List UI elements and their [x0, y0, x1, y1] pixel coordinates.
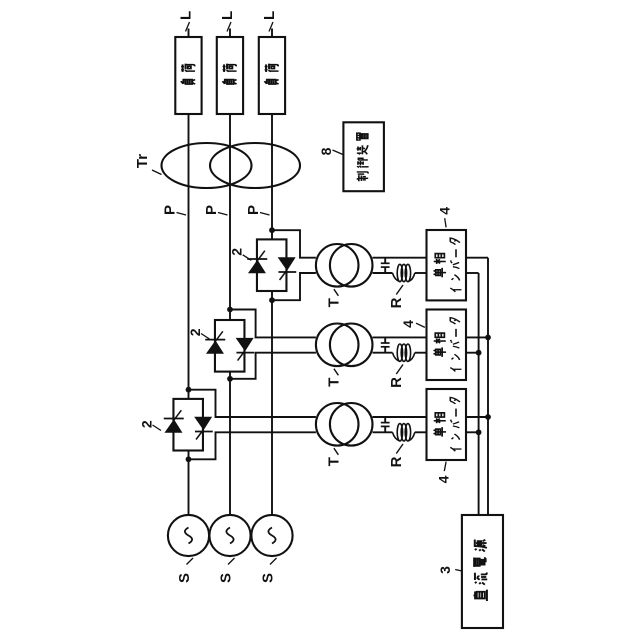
wire inductor to inverter (phase 2) — [415, 352, 427, 354]
svg-text:P: P — [203, 205, 220, 215]
transformer Tr winding 2 — [210, 143, 300, 188]
svg-text:4: 4 — [436, 475, 452, 483]
thyristor (upper, phase 3) — [248, 260, 266, 273]
inverter text line2 (phase 2) — [450, 368, 461, 372]
svg-text:T: T — [326, 298, 343, 307]
wire inverter 1 to bus B — [466, 431, 479, 433]
svg-text:2: 2 — [139, 420, 155, 428]
label L (phase 3) — [269, 22, 273, 32]
wire T2 secondary right — [373, 336, 427, 338]
svg-text:S: S — [260, 573, 277, 583]
capacitor (phase 2) — [384, 337, 386, 343]
svg-text:L: L — [261, 11, 278, 20]
thyristor pair box 2 (phase 1) — [173, 399, 203, 451]
wire inductor to inverter (phase 3) — [415, 272, 427, 274]
svg-text:3: 3 — [437, 566, 453, 574]
dc bus A (lower) — [487, 258, 489, 515]
wire phase 1 switch to load — [188, 390, 190, 399]
inverter text line1 (phase 1) — [434, 427, 446, 436]
svg-text:4: 4 — [400, 320, 416, 328]
load text (phase 3) — [264, 79, 278, 84]
load box (phase 2) — [217, 37, 243, 114]
transformer T3 secondary — [330, 244, 373, 287]
dc source text — [473, 590, 486, 601]
load text (phase 2) — [222, 79, 236, 84]
inverter text line1 (phase 3) — [434, 268, 446, 277]
svg-text:4: 4 — [436, 207, 452, 215]
transformer T3 primary — [316, 244, 359, 287]
svg-text:T: T — [326, 378, 343, 387]
svg-text:L: L — [178, 11, 195, 20]
wire load 3 to terminal — [271, 29, 273, 38]
inductor R (phase 1) — [393, 432, 400, 441]
svg-text:Tr: Tr — [134, 154, 151, 168]
dc source box 3 — [462, 515, 503, 628]
ac source S3 — [251, 515, 292, 556]
wire load 2 to terminal — [229, 29, 231, 38]
wire phase 3 into switch — [271, 291, 273, 300]
dc bus B (upper) — [478, 273, 480, 515]
wire to T1 primary (left) — [189, 432, 316, 459]
wire to T2 primary (right) — [230, 310, 316, 338]
transformer T2 secondary — [330, 323, 373, 366]
thyristor pair box 2 (phase 3) — [257, 239, 287, 291]
transformer T1 secondary — [330, 403, 373, 446]
ac source S1 — [168, 515, 209, 556]
wire T2 secondary left upper — [373, 352, 393, 354]
wire T3 secondary left upper — [373, 272, 393, 274]
wire T1 secondary left upper — [373, 431, 393, 433]
thyristor (lower, phase 2) — [236, 338, 254, 352]
label L (phase 2) — [227, 22, 231, 32]
svg-text:S: S — [176, 573, 193, 583]
node phase 2 right — [227, 307, 233, 313]
wire T1 secondary right — [373, 416, 427, 418]
wire T3 secondary right — [373, 257, 427, 259]
thyristor (upper, phase 1) — [164, 419, 182, 432]
svg-text:R: R — [388, 377, 405, 388]
inverter text line2 (phase 3) — [450, 288, 461, 292]
svg-text:8: 8 — [318, 147, 334, 155]
inverter text line2 (phase 1) — [450, 447, 461, 451]
single-phase inverter box 4 (phase 3) — [427, 230, 467, 300]
svg-text:T: T — [326, 457, 343, 466]
transformer Tr winding 1 — [162, 143, 252, 188]
svg-text:L: L — [219, 11, 236, 20]
single-phase inverter box 4 (phase 2) — [427, 310, 467, 381]
wire load 1 to terminal — [188, 29, 190, 38]
svg-text:P: P — [162, 205, 179, 215]
svg-text:P: P — [245, 205, 262, 215]
node phase 3 left — [269, 297, 275, 303]
inverter text line1 (phase 2) — [434, 347, 446, 356]
svg-text:R: R — [388, 456, 405, 467]
wire inductor to inverter (phase 1) — [415, 431, 427, 433]
wire phase 2 switch to load — [229, 310, 231, 321]
wire phase 2 into switch — [229, 372, 231, 379]
svg-text:2: 2 — [229, 248, 245, 256]
wire inverter 2 to bus A — [466, 336, 488, 338]
node phase 2 left — [227, 376, 233, 382]
node bus A phase 2 — [485, 335, 491, 341]
label L (phase 1) — [186, 22, 190, 32]
wire inverter 1 to bus A — [466, 416, 488, 418]
node bus A phase 1 — [485, 414, 491, 420]
node phase 1 left — [186, 456, 192, 462]
wire to T1 primary (right) — [189, 390, 316, 417]
transformer T1 primary — [316, 403, 359, 446]
inductor R (phase 2) — [393, 353, 400, 362]
control device text — [357, 172, 368, 181]
thyristor (upper, phase 2) — [206, 340, 224, 353]
wire inverter 2 to bus B — [466, 352, 479, 354]
wire phase 1 into switch — [188, 451, 190, 460]
capacitor (phase 1) — [384, 417, 386, 423]
inductor R (phase 3) — [393, 273, 400, 282]
transformer T2 primary — [316, 323, 359, 366]
load box (phase 3) — [259, 37, 285, 114]
wire to T2 primary (left) — [230, 353, 316, 379]
wire to T3 primary (right) — [272, 230, 316, 258]
thyristor (lower, phase 1) — [194, 417, 212, 431]
node bus B phase 1 — [476, 429, 482, 435]
node phase 1 right — [186, 387, 192, 393]
svg-text:S: S — [218, 573, 235, 583]
wire to T3 primary (left) — [272, 273, 316, 300]
single-phase inverter box 4 (phase 1) — [427, 389, 467, 460]
node bus B phase 2 — [476, 350, 482, 356]
ac source S2 — [209, 515, 250, 556]
capacitor (phase 3) — [384, 258, 386, 264]
wire inverter 3 to bus B — [466, 272, 479, 274]
thyristor pair box 2 (phase 2) — [215, 320, 245, 372]
svg-text:R: R — [388, 297, 405, 308]
wire phase 3 switch to load — [271, 230, 273, 239]
load box (phase 1) — [175, 37, 201, 114]
load text (phase 1) — [181, 79, 195, 84]
wire inverter 3 to bus A — [466, 257, 488, 259]
node phase 3 right — [269, 227, 275, 233]
control device box 8 — [343, 122, 384, 191]
svg-text:2: 2 — [187, 328, 203, 336]
thyristor (lower, phase 3) — [278, 257, 296, 271]
